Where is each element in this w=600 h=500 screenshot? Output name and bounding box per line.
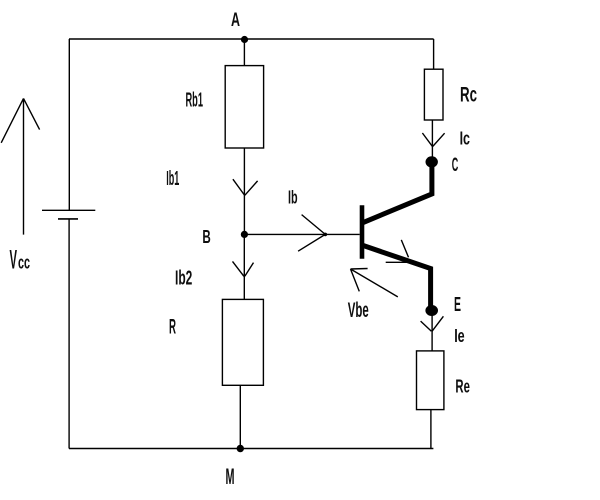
transistor Q1 collector lead (363, 163, 432, 223)
wire bottom rail (M rail) (69, 448, 433, 450)
resistor Rb1 body (225, 66, 263, 148)
svg-text:Rc: Rc (460, 84, 477, 107)
wire Re to bottom rail (430, 410, 432, 449)
current arrow Ic head (422, 133, 444, 146)
current arrow Ib2 head (233, 261, 254, 276)
wire Rb1 to node B (243, 148, 245, 234)
svg-text:R: R (169, 315, 176, 339)
node A junction dot (241, 36, 248, 43)
svg-text:C: C (452, 155, 459, 176)
node B junction dot (241, 231, 248, 238)
svg-text:Ib1: Ib1 (166, 167, 179, 190)
svg-text:Re: Re (455, 375, 470, 396)
resistor R body (222, 299, 263, 385)
node at Ib arrow tip (324, 233, 328, 237)
svg-text:Rb1: Rb1 (186, 90, 204, 112)
wire left rail lower (battery - to bottom) (68, 219, 70, 449)
node M junction dot (237, 445, 244, 452)
resistor Re body (417, 351, 444, 410)
resistor Rc body (424, 69, 443, 120)
wire Rc to node C (431, 120, 433, 161)
wire node B to R (243, 234, 245, 299)
transistor Q1 base bar (360, 205, 365, 259)
wire node A to Rb1 (243, 39, 245, 66)
wire node E to Re (431, 310, 433, 351)
svg-text:Ic: Ic (460, 128, 470, 148)
wire top rail to Rc (433, 39, 435, 69)
svg-text:cc: cc (18, 253, 30, 273)
svg-text:E: E (454, 293, 461, 316)
voltage arrow Vbe (351, 269, 398, 297)
Vcc source arrow (1, 98, 39, 234)
battery V1 plate short (-) (58, 218, 78, 220)
transistor Q1 emitter lead (363, 245, 431, 307)
node C terminal dot (426, 156, 438, 167)
battery V1 plate long (+) (42, 209, 95, 211)
svg-text:Ib2: Ib2 (175, 268, 192, 290)
svg-text:V: V (10, 245, 18, 275)
node E terminal dot (425, 305, 438, 316)
current arrow Ie head (421, 316, 444, 331)
wire top rail (A rail) (69, 38, 434, 40)
current arrow Ib head (298, 215, 325, 252)
svg-text:B: B (202, 226, 210, 247)
svg-text:M: M (226, 464, 235, 489)
svg-text:A: A (231, 9, 240, 31)
wire R to node M (239, 385, 241, 448)
wire left rail upper (to battery +) (68, 39, 70, 210)
emitter direction arrow (386, 240, 409, 262)
svg-text:Ie: Ie (454, 325, 465, 346)
wire node B to base (244, 233, 359, 235)
current arrow Ib1 head (233, 179, 258, 195)
svg-text:Vbe: Vbe (348, 299, 369, 322)
svg-text:Ib: Ib (288, 187, 298, 207)
